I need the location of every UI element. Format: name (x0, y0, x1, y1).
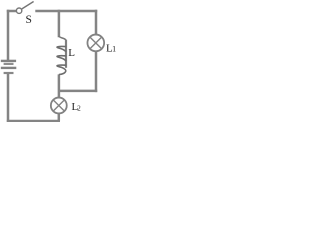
svg-text:2: 2 (77, 105, 81, 113)
svg-text:1: 1 (112, 45, 116, 54)
svg-text:S: S (26, 14, 32, 26)
svg-text:L: L (68, 47, 75, 59)
